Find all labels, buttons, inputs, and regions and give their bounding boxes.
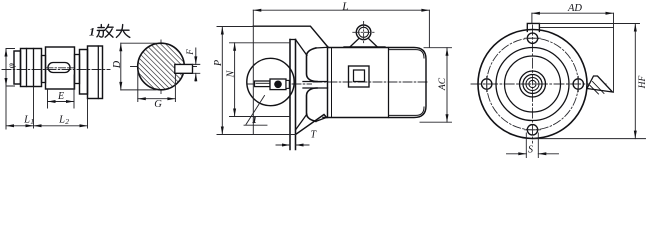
shaft section B (second collar): [21, 49, 42, 87]
svg-text:AC: AC: [438, 77, 448, 91]
bearing dark blob: [274, 81, 282, 89]
svg-text:L: L: [341, 1, 348, 13]
spigot circle: [496, 48, 569, 121]
section centerlines: [131, 66, 197, 68]
bolt circle (dash-dot): [487, 38, 579, 130]
pad side lines to HF extension: [539, 23, 639, 25]
eyebolt: [356, 25, 371, 40]
bell housing outline top: [253, 26, 328, 47]
bell housing inner diagonal bottom: [296, 114, 307, 130]
svg-text:HF: HF: [638, 75, 648, 89]
stator seam lines: [331, 48, 333, 118]
flange mounting plate: [290, 40, 296, 150]
output shaft stub: [255, 81, 271, 87]
svg-text:2: 2: [65, 117, 69, 126]
dimension P: [217, 27, 296, 135]
end view centerlines: [471, 83, 606, 85]
housing inner line: [97, 46, 99, 99]
svg-text:AD: AD: [567, 3, 582, 14]
svg-text:1: 1: [30, 117, 34, 126]
bearing collar: [80, 50, 88, 95]
keyway slot: [48, 63, 70, 73]
bell bracket top: [307, 48, 318, 82]
svg-text:D: D: [112, 60, 123, 69]
bolt hole top: [527, 33, 537, 43]
svg-text:T: T: [311, 130, 318, 141]
svg-text:N: N: [226, 69, 237, 78]
dimension HF: [534, 138, 646, 140]
shaft section A (left collar): [14, 51, 21, 84]
svg-text:G: G: [154, 99, 162, 110]
svg-text:φ: φ: [7, 63, 17, 68]
dimension S: [507, 153, 559, 155]
phi diameter dimension: [5, 49, 7, 130]
leader to detail 1: [246, 96, 265, 125]
dimension E: [48, 75, 75, 108]
bell hub lines: [303, 82, 328, 89]
svg-text:1: 1: [89, 25, 95, 39]
keyway slot and key: [175, 64, 193, 73]
dimension T: [276, 144, 309, 146]
bolt hole right: [573, 79, 583, 89]
centerline of shaft detail: [2, 69, 110, 71]
bell bracket bottom: [307, 88, 318, 121]
dimension G: [138, 70, 176, 102]
fan cowl: [389, 50, 425, 116]
groove neck: [42, 56, 46, 83]
dimension F: [193, 64, 200, 73]
bolt hole bottom (slotted): [527, 125, 537, 135]
svg-text:E: E: [57, 91, 64, 102]
bell housing inner diagonal top: [296, 40, 307, 56]
dimension N: [230, 43, 291, 117]
terminal gusset wedge (hatched): [587, 76, 613, 92]
bell housing skirt bottom: [295, 115, 326, 135]
shaft hub block: [270, 79, 286, 90]
svg-text:S: S: [528, 145, 533, 156]
motor body: [327, 47, 329, 118]
hub circles: [520, 71, 546, 97]
inner circle: [505, 56, 561, 112]
dimension L2: [34, 124, 42, 127]
housing end block: [88, 46, 103, 99]
flange outer circle: [478, 30, 587, 139]
terminal box on motor: [349, 66, 370, 87]
main axis centerline: [247, 83, 312, 85]
top pad on flange: [527, 23, 539, 31]
dimension AD: [531, 13, 533, 23]
dimension L1: [34, 87, 88, 128]
dimension D: [121, 43, 156, 90]
keyway shaft section: [46, 47, 75, 89]
bolt hole left: [482, 79, 492, 89]
keyway slot centerline: [46, 67, 74, 69]
svg-text:F: F: [185, 49, 195, 56]
svg-text:P: P: [213, 60, 224, 67]
neck 2: [75, 55, 80, 84]
S slot lines: [526, 133, 538, 158]
svg-text:L: L: [58, 114, 65, 125]
hatched shaft section circle: [138, 43, 185, 90]
dimension L: [252, 10, 254, 134]
dimension AC: [420, 48, 452, 123]
svg-text:L: L: [23, 114, 30, 125]
flange face circle: [247, 58, 294, 105]
section B divider line: [27, 49, 34, 87]
